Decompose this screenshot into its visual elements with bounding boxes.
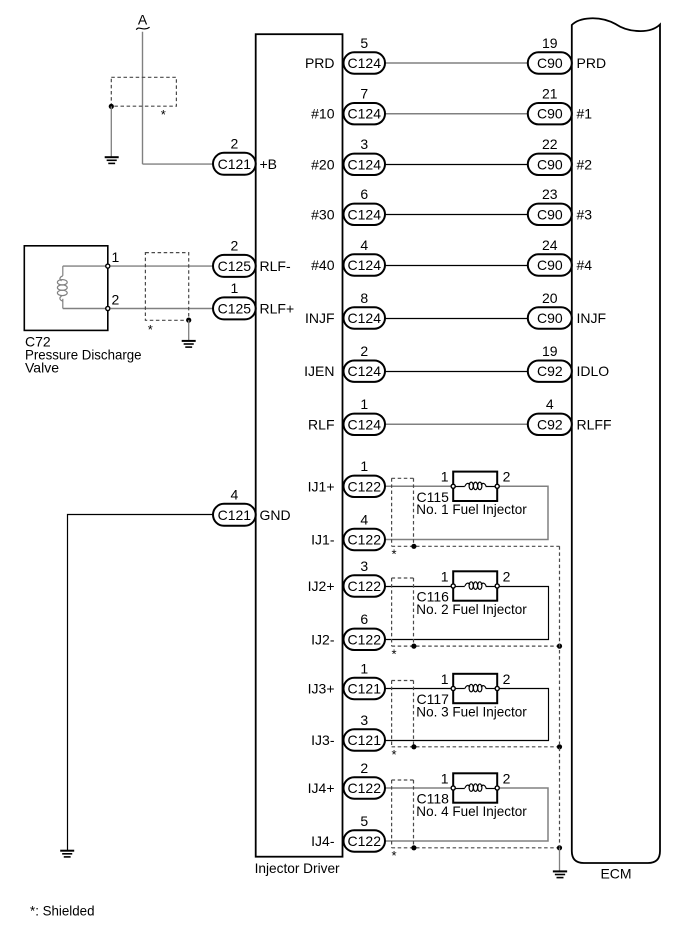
svg-text:No. 1 Fuel Injector: No. 1 Fuel Injector (416, 501, 527, 517)
svg-text:24: 24 (542, 237, 558, 253)
svg-text:1: 1 (441, 469, 449, 485)
svg-text:C121: C121 (218, 507, 252, 523)
svg-text:RLF-: RLF- (260, 258, 291, 274)
svg-text:4: 4 (230, 486, 238, 502)
svg-text:C122: C122 (348, 578, 382, 594)
svg-text:C124: C124 (348, 106, 382, 122)
svg-text:C125: C125 (218, 258, 252, 274)
svg-text:5: 5 (360, 813, 368, 829)
svg-text:IJ2-: IJ2- (311, 631, 335, 647)
svg-text:#10: #10 (311, 106, 335, 122)
svg-text:1: 1 (441, 770, 449, 786)
svg-text:C122: C122 (348, 833, 382, 849)
svg-text:IJ1-: IJ1- (311, 532, 335, 548)
svg-text:1: 1 (360, 458, 368, 474)
svg-text:C92: C92 (537, 363, 563, 379)
svg-text:C124: C124 (348, 156, 382, 172)
svg-text:*: * (391, 547, 396, 562)
svg-text:7: 7 (360, 86, 368, 102)
svg-text:4: 4 (360, 511, 368, 527)
svg-text:C122: C122 (348, 532, 382, 548)
svg-text:4: 4 (546, 396, 554, 412)
svg-text:2: 2 (360, 760, 368, 776)
svg-text:C92: C92 (537, 416, 563, 432)
svg-text:#2: #2 (577, 156, 593, 172)
svg-text:No. 4 Fuel Injector: No. 4 Fuel Injector (416, 803, 527, 819)
svg-text:C121: C121 (348, 732, 382, 748)
svg-text:1: 1 (360, 396, 368, 412)
svg-text:INJF: INJF (305, 310, 335, 326)
svg-text:*: * (391, 747, 396, 762)
svg-text:C90: C90 (537, 257, 563, 273)
svg-text:INJF: INJF (577, 310, 607, 326)
svg-text:C121: C121 (348, 681, 382, 697)
svg-text:1: 1 (112, 249, 120, 265)
svg-text:+B: +B (260, 156, 278, 172)
svg-text:PRD: PRD (577, 55, 607, 71)
svg-text:21: 21 (542, 86, 558, 102)
svg-text:C90: C90 (537, 310, 563, 326)
svg-text:No. 3 Fuel Injector: No. 3 Fuel Injector (416, 703, 527, 719)
svg-text:No. 2 Fuel Injector: No. 2 Fuel Injector (416, 601, 527, 617)
svg-text:*: Shielded: *: Shielded (30, 903, 95, 919)
svg-text:C90: C90 (537, 206, 563, 222)
svg-text:2: 2 (360, 343, 368, 359)
svg-text:4: 4 (360, 237, 368, 253)
svg-text:*: * (391, 647, 396, 662)
svg-text:C122: C122 (348, 478, 382, 494)
svg-text:IJ4-: IJ4- (311, 833, 335, 849)
svg-text:1: 1 (360, 660, 368, 676)
svg-text:2: 2 (503, 568, 511, 584)
svg-text:IJ3+: IJ3+ (308, 681, 335, 697)
svg-text:#30: #30 (311, 206, 335, 222)
svg-text:C90: C90 (537, 55, 563, 71)
svg-text:23: 23 (542, 186, 558, 202)
svg-text:20: 20 (542, 290, 558, 306)
svg-text:PRD: PRD (305, 55, 335, 71)
svg-text:6: 6 (360, 611, 368, 627)
svg-text:3: 3 (360, 712, 368, 728)
svg-text:#4: #4 (577, 257, 593, 273)
svg-text:C124: C124 (348, 310, 382, 326)
svg-text:#1: #1 (577, 106, 593, 122)
svg-text:C124: C124 (348, 257, 382, 273)
svg-text:6: 6 (360, 186, 368, 202)
svg-text:*: * (161, 107, 166, 122)
svg-text:2: 2 (230, 237, 238, 253)
svg-text:C124: C124 (348, 416, 382, 432)
svg-text:C90: C90 (537, 156, 563, 172)
svg-text:IJ4+: IJ4+ (308, 780, 335, 796)
svg-text:*: * (391, 848, 396, 863)
svg-text:22: 22 (542, 136, 558, 152)
svg-text:2: 2 (503, 671, 511, 687)
svg-text:#40: #40 (311, 257, 335, 273)
svg-text:C124: C124 (348, 206, 382, 222)
svg-text:C125: C125 (218, 300, 252, 316)
svg-text:19: 19 (542, 35, 558, 51)
svg-text:1: 1 (230, 280, 238, 296)
svg-text:*: * (148, 322, 153, 337)
svg-text:IJ2+: IJ2+ (308, 578, 335, 594)
svg-text:C122: C122 (348, 631, 382, 647)
svg-text:RLF: RLF (308, 416, 334, 432)
svg-text:5: 5 (360, 35, 368, 51)
svg-text:2: 2 (112, 292, 120, 308)
svg-text:1: 1 (441, 671, 449, 687)
svg-text:C124: C124 (348, 55, 382, 71)
svg-text:C121: C121 (218, 156, 252, 172)
svg-text:#20: #20 (311, 156, 335, 172)
svg-text:1: 1 (441, 568, 449, 584)
svg-text:2: 2 (503, 469, 511, 485)
svg-text:IJ1+: IJ1+ (308, 478, 335, 494)
svg-text:GND: GND (260, 507, 291, 523)
svg-text:A: A (138, 12, 148, 28)
svg-text:IJ3-: IJ3- (311, 732, 335, 748)
svg-text:RLFF: RLFF (577, 416, 612, 432)
svg-text:RLF+: RLF+ (260, 300, 295, 316)
svg-text:3: 3 (360, 136, 368, 152)
svg-text:IDLO: IDLO (577, 363, 610, 379)
svg-text:C122: C122 (348, 780, 382, 796)
svg-text:C90: C90 (537, 106, 563, 122)
svg-text:19: 19 (542, 343, 558, 359)
svg-text:2: 2 (230, 135, 238, 151)
svg-text:2: 2 (503, 770, 511, 786)
svg-text:#3: #3 (577, 206, 593, 222)
svg-text:IJEN: IJEN (304, 363, 334, 379)
svg-text:ECM: ECM (600, 865, 631, 881)
svg-text:C124: C124 (348, 363, 382, 379)
svg-text:Valve: Valve (25, 359, 59, 375)
svg-text:3: 3 (360, 558, 368, 574)
svg-text:8: 8 (360, 290, 368, 306)
svg-text:Injector Driver: Injector Driver (255, 860, 340, 876)
